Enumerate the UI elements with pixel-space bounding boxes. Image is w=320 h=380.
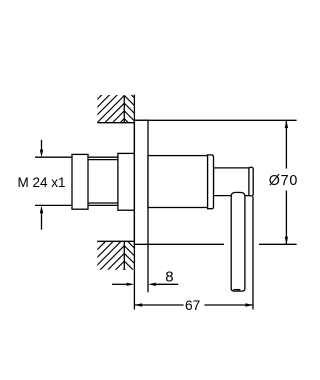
wall face line: [133, 95, 135, 310]
M24 thread ext line top: [35, 156, 72, 158]
dia70 arrowhead down: [285, 237, 288, 245]
svg-text:Ø70: Ø70: [269, 173, 298, 189]
67 dim line left segment: [134, 304, 183, 306]
lever arm: [214, 168, 250, 196]
8 arrowhead right: [127, 283, 135, 286]
union nut: [72, 154, 88, 209]
dim ext line flange bottom left segment: [134, 243, 224, 245]
dia70 dim line bottom segment: [285, 191, 287, 245]
dim ext line 67 right: [252, 196, 254, 309]
svg-text:67: 67: [185, 298, 200, 313]
M24 thread ext line bottom: [35, 204, 72, 206]
M24 dim arrow top: [41, 140, 43, 150]
wall hole top edge: [97, 122, 134, 124]
dia70 arrowhead up: [285, 120, 288, 128]
M24 dim arrow bottom: [41, 213, 43, 230]
thread outer lines: [88, 156, 118, 158]
dia70 dim line top segment: [285, 120, 287, 168]
wall hatch top-left panel: [59, 80, 163, 130]
lever end cap: [249, 167, 253, 196]
67 arrowhead right: [245, 303, 253, 306]
67 arrowhead left: [135, 303, 143, 306]
8 arrowhead left: [148, 283, 156, 286]
wall hatch bottom-right panel: [120, 234, 139, 284]
stem cap: [208, 155, 214, 209]
svg-text:8: 8: [165, 269, 173, 286]
valve body block: [118, 153, 134, 210]
wall hatch bottom center line: [123, 241, 125, 269]
svg-text:M 24 x1: M 24 x1: [18, 175, 66, 190]
67 dim line right segment: [205, 304, 254, 306]
valve cylinder: [148, 156, 208, 208]
wall hatch bottom-left panel: [59, 225, 168, 280]
thread inner lines: [88, 159, 118, 161]
8 dim line right tail: [155, 283, 178, 285]
wall hatch top-right panel: [120, 84, 139, 134]
wall hatch top center line: [123, 95, 125, 122]
M24 arrowhead up: [40, 206, 43, 214]
M24 arrowhead down: [40, 150, 43, 158]
dim ext line flange bottom right segment: [259, 243, 297, 245]
grip cylinder: [231, 192, 245, 291]
escutcheon flange: [134, 120, 148, 244]
dim ext line 8 (flange front): [147, 244, 149, 292]
wall hole bottom edge: [97, 240, 134, 242]
dim ext line flange top: [134, 119, 296, 121]
8 dim line left tail: [112, 283, 127, 285]
grip bottom face line: [233, 289, 240, 291]
